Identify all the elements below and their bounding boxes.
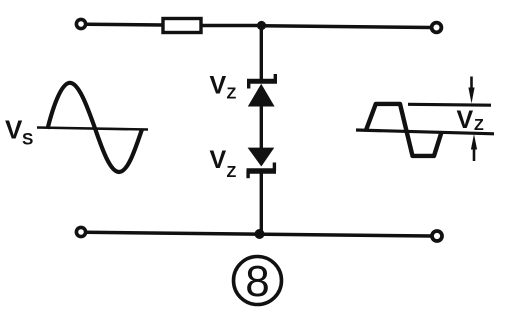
wire top-right (262, 26, 431, 28)
svg-text:V: V (457, 106, 474, 134)
figure number circle 8 (234, 257, 282, 307)
wire between zeners (260, 105, 263, 149)
resistor R1 (163, 19, 201, 33)
terminal bottom-left (76, 227, 85, 236)
output axis line (356, 130, 494, 134)
terminal bottom-right (432, 231, 442, 241)
clip level reference line (408, 103, 491, 107)
dimension arrow down (top) (468, 77, 474, 104)
output clipped waveform (366, 104, 441, 156)
svg-text:8: 8 (245, 257, 269, 306)
input axis line (37, 128, 148, 130)
node bottom junction (255, 229, 265, 239)
svg-text:Z: Z (474, 117, 484, 134)
svg-text:Z: Z (227, 86, 237, 103)
svg-text:V: V (210, 146, 227, 174)
input sine wave Vs (48, 83, 142, 172)
node top junction (257, 21, 266, 30)
zener D1 (upper, cathode up) (247, 74, 277, 107)
terminal top-right (432, 23, 442, 33)
wire bottom (86, 232, 432, 236)
terminal top-left (76, 19, 85, 28)
svg-text:Z: Z (227, 164, 237, 181)
wire vertical branch upper (260, 26, 263, 80)
dimension arrow up (bottom) (471, 134, 477, 161)
svg-text:V: V (5, 115, 23, 145)
wire vertical branch lower (260, 172, 263, 234)
wire top-left (87, 22, 163, 26)
svg-text:S: S (22, 130, 33, 149)
wire resistor to node (201, 24, 262, 28)
svg-text:V: V (210, 72, 227, 100)
zener D2 (lower, cathode down) (247, 148, 277, 179)
